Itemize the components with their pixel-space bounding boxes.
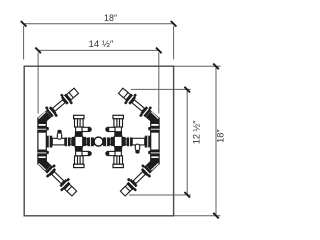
svg-text:18″: 18″ bbox=[216, 129, 226, 143]
svg-text:12 ½″: 12 ½″ bbox=[192, 120, 202, 144]
svg-text:18″: 18″ bbox=[104, 13, 117, 23]
svg-text:14 ½″: 14 ½″ bbox=[89, 39, 114, 50]
